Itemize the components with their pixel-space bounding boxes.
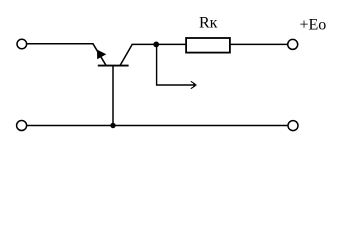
svg-text:+Eо: +Eо — [300, 17, 327, 34]
svg-text:Rк: Rк — [199, 15, 218, 32]
